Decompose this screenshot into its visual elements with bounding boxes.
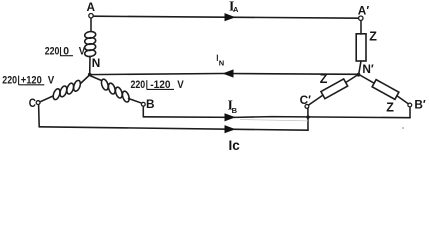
arrow IN (points left): [223, 69, 234, 77]
wire B' drop: [409, 107, 411, 118]
wire Z3 to B': [397, 96, 409, 104]
node N junction: [88, 73, 92, 77]
node B terminal: [141, 102, 145, 106]
winding N-C lead: [81, 76, 89, 84]
svg-text:N: N: [92, 56, 101, 70]
node B' terminal: [408, 103, 412, 107]
wire C to C' (bottom line): [39, 127, 308, 130]
svg-text:B′: B′: [414, 97, 426, 111]
svg-text:N: N: [219, 59, 224, 68]
node A terminal: [89, 14, 93, 18]
label 220 angle 0 V: [45, 45, 86, 57]
wire Z1 to N': [359, 61, 361, 74]
svg-text:V: V: [177, 79, 184, 91]
node A' terminal: [359, 16, 363, 20]
winding N-C coil: [52, 80, 82, 101]
wire A' drop to Z: [360, 20, 362, 34]
wire Z2 to C': [308, 95, 323, 105]
wire A to A' (top line): [94, 16, 359, 18]
winding N-B lead to B: [129, 99, 142, 104]
wire N' to Z3: [360, 75, 374, 83]
impedance Z3 body (N'-B' diagonal): [372, 80, 399, 100]
svg-text:C: C: [29, 96, 37, 110]
winding N-B coil: [100, 78, 130, 103]
node C terminal: [36, 101, 40, 105]
wire B drop: [142, 106, 144, 117]
svg-text:A: A: [87, 0, 96, 14]
wire B to B': [143, 117, 410, 118]
ghost scan artifact line: [240, 120, 308, 121]
svg-text:-120: -120: [150, 79, 170, 91]
impedance Z2 body (N'-C' diagonal): [321, 79, 348, 99]
svg-text:Ic: Ic: [229, 138, 241, 153]
wire A top lead: [90, 18, 92, 31]
svg-text:C′: C′: [300, 93, 312, 107]
svg-text:220: 220: [45, 45, 60, 57]
svg-text:Z: Z: [320, 72, 328, 86]
svg-text:V: V: [79, 45, 86, 57]
label IN: [216, 55, 218, 61]
svg-text:B: B: [232, 106, 238, 115]
svg-text:N′: N′: [362, 62, 374, 76]
svg-text:A: A: [233, 5, 239, 14]
label 220 angle -120 V: [131, 79, 184, 91]
node C' terminal: [305, 105, 309, 109]
wire C drop: [38, 104, 41, 126]
wire N to N' (neutral line): [90, 74, 359, 75]
impedance Z1 body (vertical): [356, 34, 366, 61]
winding N-B lead: [91, 76, 102, 81]
svg-text:220: 220: [2, 74, 17, 86]
svg-text:B: B: [146, 97, 155, 111]
svg-text:Z: Z: [369, 30, 377, 44]
svg-text:V: V: [48, 74, 55, 86]
junction blob where B wire crosses C' drop: [306, 115, 309, 118]
wire N' to Z2: [346, 75, 358, 83]
svg-text:Z: Z: [386, 100, 394, 114]
wire coil bottom to N: [89, 56, 91, 74]
speck artifact: [402, 127, 404, 129]
node N' junction: [357, 73, 361, 77]
wire C' drop: [307, 108, 309, 130]
arrow IA: [225, 13, 236, 21]
svg-text:0: 0: [63, 45, 69, 57]
svg-text:A′: A′: [358, 3, 370, 17]
arrow IC: [225, 125, 236, 133]
winding A-N coil: [84, 31, 96, 57]
label 220 angle +120 V: [2, 74, 54, 86]
arrow IB: [225, 113, 236, 121]
svg-text:220: 220: [131, 79, 146, 91]
svg-text:+120: +120: [21, 74, 42, 86]
winding N-C lead to C: [39, 96, 53, 102]
